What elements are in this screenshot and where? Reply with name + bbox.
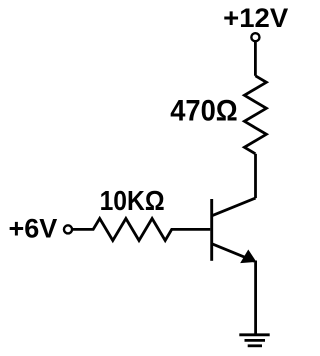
resistor R2 10K (horizontal zigzag) with base wire to Q1 bbox=[72, 219, 210, 241]
terminal +12V bbox=[251, 33, 259, 41]
svg-text:+12V: +12V bbox=[223, 3, 288, 33]
wire from R1 to transistor collector bbox=[254, 154, 257, 198]
svg-text:470Ω: 470Ω bbox=[170, 94, 238, 127]
resistor R1 470ohm (vertical zigzag) bbox=[244, 76, 266, 154]
ground symbol bar 2 bbox=[245, 339, 266, 342]
transistor Q1 base bar bbox=[210, 199, 213, 261]
svg-text:+6V: +6V bbox=[9, 214, 58, 244]
ground symbol bar 3 bbox=[248, 344, 262, 347]
emitter arrowhead bbox=[241, 250, 255, 262]
emitter lead of Q1 bbox=[212, 244, 255, 262]
wire from emitter to ground bbox=[254, 261, 257, 334]
wire from +12V terminal to resistor R1 bbox=[254, 42, 257, 76]
svg-text:10KΩ: 10KΩ bbox=[100, 185, 165, 216]
terminal +6V bbox=[64, 225, 72, 233]
collector lead of Q1 bbox=[212, 198, 256, 216]
ground symbol bar 1 bbox=[239, 333, 269, 336]
